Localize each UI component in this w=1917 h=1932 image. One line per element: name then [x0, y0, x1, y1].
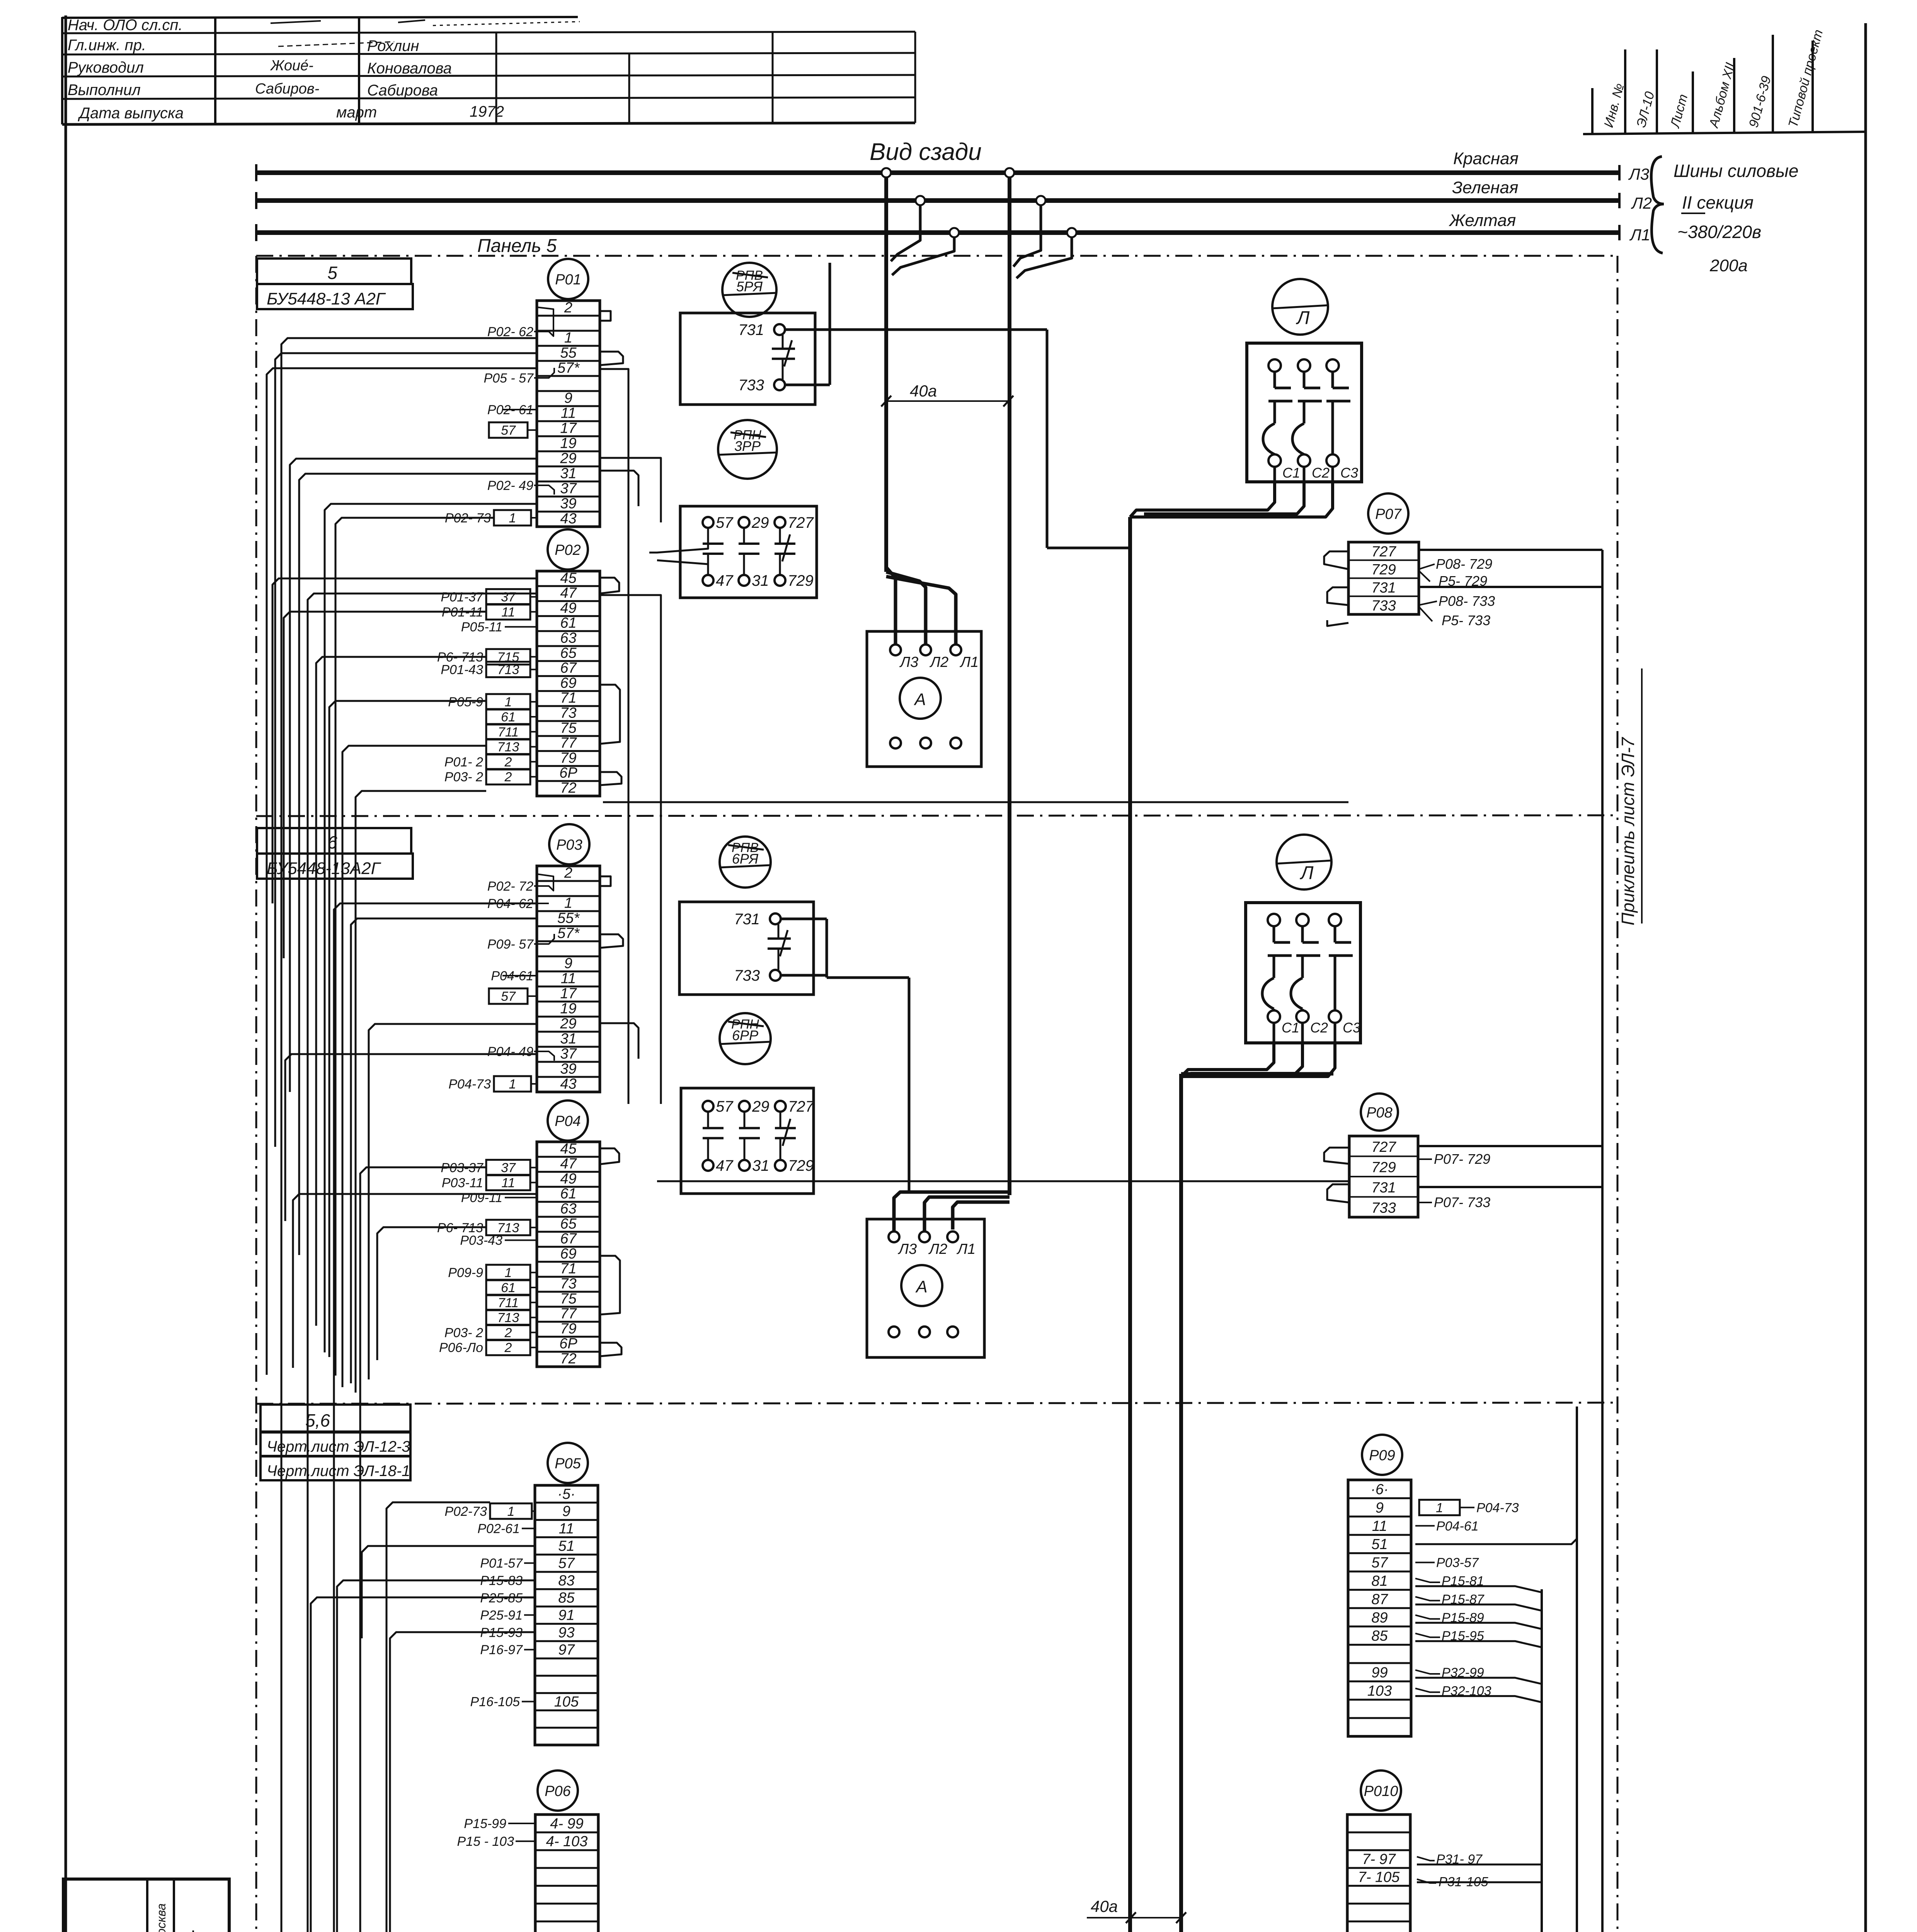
svg-text:Выполнил: Выполнил — [68, 82, 141, 99]
top-right stamp columns — [1583, 28, 1866, 134]
svg-text:Р07- 733: Р07- 733 — [1434, 1194, 1490, 1210]
svg-text:89: 89 — [1371, 1610, 1388, 1626]
svg-text:19: 19 — [560, 435, 576, 451]
svg-text:Р09- 57: Р09- 57 — [487, 937, 534, 952]
svg-text:19: 19 — [560, 1000, 576, 1017]
sheet left border — [65, 15, 67, 1932]
svg-text:731: 731 — [1371, 580, 1396, 596]
relay РПН 3РР — [718, 420, 777, 479]
svg-text:Рохлин: Рохлин — [367, 37, 419, 54]
svg-text:~380/220в: ~380/220в — [1677, 222, 1761, 242]
title table (sheet stamp) — [62, 17, 915, 124]
svg-text:9: 9 — [562, 1503, 570, 1520]
svg-text:Р07: Р07 — [1375, 506, 1402, 522]
svg-text:март: март — [336, 104, 377, 121]
svg-text:1: 1 — [507, 1504, 515, 1519]
svg-text:11: 11 — [559, 1521, 574, 1537]
svg-text:1: 1 — [505, 695, 512, 709]
contact block 731/733 panel6 — [679, 902, 814, 995]
svg-text:Р15-83: Р15-83 — [480, 1573, 523, 1588]
sheet right border — [1864, 23, 1867, 1932]
svg-text:43: 43 — [560, 510, 576, 527]
svg-text:713: 713 — [497, 740, 519, 755]
svg-text:Р03- 2: Р03- 2 — [444, 770, 483, 784]
Р010 right wire labels — [1417, 1852, 1542, 1889]
terminal strip Р05 — [535, 1443, 598, 1745]
left title block — [63, 1879, 229, 1932]
panel6 motor feeder — [781, 919, 1333, 1932]
svg-text:29: 29 — [560, 1015, 576, 1032]
panel6 header box 6 — [257, 828, 411, 854]
svg-text:9: 9 — [564, 955, 572, 971]
svg-text:105: 105 — [554, 1694, 579, 1710]
svg-text:87: 87 — [1371, 1591, 1388, 1607]
brace — [1651, 156, 1664, 253]
svg-text:67: 67 — [560, 1231, 577, 1247]
svg-text:31: 31 — [560, 465, 576, 481]
svg-text:Красная: Красная — [1453, 149, 1519, 168]
svg-text:2: 2 — [564, 865, 572, 881]
svg-text:99: 99 — [1371, 1665, 1388, 1681]
svg-text:Р09: Р09 — [1369, 1447, 1395, 1464]
Р07 wire labels — [1419, 556, 1495, 628]
svg-text:Вид сзади: Вид сзади — [870, 139, 982, 165]
power bus bars L3 L2 L1 — [256, 164, 1619, 241]
svg-text:91: 91 — [558, 1607, 574, 1624]
svg-text:29: 29 — [560, 450, 576, 466]
svg-text:11: 11 — [561, 405, 576, 421]
svg-text:Зеленая: Зеленая — [1452, 178, 1519, 197]
right vertical 4080 — [1576, 1406, 1578, 1553]
svg-text:Р03-37: Р03-37 — [441, 1161, 484, 1175]
right vertical 4146 — [1601, 550, 1604, 1932]
svg-text:Л3: Л3 — [1628, 165, 1649, 183]
svg-text:Р04: Р04 — [555, 1113, 581, 1129]
svg-text:69: 69 — [560, 675, 576, 691]
svg-text:1: 1 — [509, 1077, 516, 1092]
svg-text:83: 83 — [558, 1573, 574, 1589]
svg-text:Р09-11: Р09-11 — [461, 1190, 502, 1205]
svg-text:729: 729 — [1371, 1160, 1396, 1176]
strip right tabs — [600, 311, 661, 1356]
svg-text:Р05-9: Р05-9 — [448, 695, 483, 709]
svg-text:17: 17 — [560, 985, 577, 1002]
terminal block Р07 — [1348, 493, 1419, 614]
svg-text:63: 63 — [560, 1201, 576, 1217]
svg-text:77: 77 — [560, 735, 577, 751]
svg-text:37: 37 — [501, 1161, 516, 1175]
svg-text:57*: 57* — [557, 925, 580, 941]
svg-text:97: 97 — [558, 1642, 575, 1658]
svg-text:727: 727 — [1371, 1139, 1396, 1155]
svg-text:3РР: 3РР — [734, 438, 761, 454]
svg-text:С1: С1 — [1282, 465, 1300, 481]
svg-text:1: 1 — [564, 330, 572, 346]
svg-text:Р03: Р03 — [556, 837, 582, 853]
svg-text:Черт.лист ЭЛ-18-1: Черт.лист ЭЛ-18-1 — [267, 1463, 410, 1480]
svg-text:731: 731 — [734, 911, 760, 928]
svg-text:Р01-11: Р01-11 — [442, 605, 483, 619]
svg-text:Р03-57: Р03-57 — [1436, 1556, 1479, 1570]
svg-text:57: 57 — [716, 514, 734, 531]
svg-text:Р06-Ло: Р06-Ло — [439, 1340, 483, 1355]
svg-text:733: 733 — [1371, 598, 1396, 614]
svg-text:11: 11 — [1372, 1518, 1387, 1534]
section header 5,6 — [260, 1405, 410, 1432]
svg-text:Л3: Л3 — [899, 654, 918, 670]
svg-text:Р04-73: Р04-73 — [448, 1077, 491, 1092]
note II секция — [1681, 192, 1754, 213]
svg-text:Желтая: Желтая — [1449, 211, 1516, 230]
svg-text:Р01-43: Р01-43 — [441, 663, 483, 677]
svg-text:727: 727 — [788, 1098, 814, 1115]
ref box ЭЛ-12-3 — [260, 1432, 410, 1456]
svg-text:Р09-9: Р09-9 — [448, 1265, 483, 1280]
svg-text:29: 29 — [752, 1098, 770, 1115]
А panel6 feeder bundle — [894, 1192, 1010, 1231]
svg-text:67: 67 — [560, 660, 577, 676]
svg-text:Р08: Р08 — [1366, 1105, 1393, 1121]
svg-text:57: 57 — [716, 1098, 734, 1115]
svg-text:II секция: II секция — [1682, 192, 1754, 213]
svg-text:Р16-97: Р16-97 — [480, 1643, 523, 1657]
svg-text:75: 75 — [560, 720, 577, 736]
svg-text:Р02- 72: Р02- 72 — [487, 879, 533, 894]
svg-text:39: 39 — [560, 1061, 576, 1077]
svg-text:733: 733 — [1371, 1200, 1396, 1216]
svg-text:57: 57 — [558, 1555, 575, 1571]
svg-text:Р15-93: Р15-93 — [480, 1625, 523, 1640]
wire Р07 727 row — [1419, 549, 1602, 551]
svg-text:49: 49 — [560, 1171, 576, 1187]
svg-text:2: 2 — [564, 299, 572, 316]
svg-text:55*: 55* — [557, 910, 580, 926]
svg-text:г.Москва: г.Москва — [154, 1903, 168, 1932]
svg-text:65: 65 — [560, 645, 577, 661]
svg-text:7- 105: 7- 105 — [1358, 1869, 1400, 1885]
svg-text:·6·: ·6· — [1371, 1481, 1388, 1498]
svg-text:9: 9 — [1376, 1500, 1384, 1516]
terminal strip Р010 — [1347, 1770, 1410, 1932]
svg-text:Р01-57: Р01-57 — [480, 1556, 523, 1571]
svg-text:37: 37 — [501, 590, 516, 605]
svg-text:Л1: Л1 — [959, 654, 979, 670]
svg-text:2: 2 — [504, 1325, 512, 1340]
svg-text:73: 73 — [560, 1276, 576, 1292]
svg-text:29: 29 — [751, 514, 769, 531]
svg-text:Р15 - 103: Р15 - 103 — [457, 1834, 514, 1849]
Р02 left wire labels — [437, 589, 537, 785]
svg-text:69: 69 — [560, 1246, 576, 1262]
svg-text:79: 79 — [560, 750, 576, 766]
svg-text:43: 43 — [560, 1076, 576, 1092]
svg-text:57: 57 — [501, 423, 516, 438]
svg-text:5,6: 5,6 — [305, 1410, 330, 1430]
svg-text:Р07- 729: Р07- 729 — [1434, 1151, 1490, 1167]
terminal strip Р02 — [537, 529, 600, 796]
svg-text:77: 77 — [560, 1306, 577, 1322]
svg-text:731: 731 — [738, 321, 764, 338]
svg-text:61: 61 — [501, 1281, 516, 1295]
svg-text:731: 731 — [1371, 1180, 1396, 1196]
svg-text:С2: С2 — [1312, 465, 1330, 481]
contact block 57/29/727 panel5 — [680, 506, 817, 598]
block to strip wires panel5 — [649, 528, 708, 574]
terminal strip Р01 — [537, 259, 600, 527]
svg-text:31: 31 — [560, 1031, 576, 1047]
contactor panel6 output bundle — [1181, 1043, 1335, 1077]
svg-text:Р06: Р06 — [545, 1783, 571, 1799]
svg-text:729: 729 — [788, 572, 814, 589]
svg-text:61: 61 — [501, 710, 516, 724]
svg-text:51: 51 — [1371, 1536, 1388, 1553]
svg-text:6Р: 6Р — [559, 1336, 577, 1352]
svg-text:Л: Л — [1300, 863, 1314, 883]
svg-text:93: 93 — [558, 1624, 574, 1641]
svg-text:Р02- 62: Р02- 62 — [487, 325, 533, 339]
panel5 header box type — [257, 284, 413, 309]
left wire bundle to bottom devices — [267, 338, 848, 1932]
Р07 left jogs — [1324, 551, 1348, 626]
svg-text:Нач. ОЛО сл.сп.: Нач. ОЛО сл.сп. — [68, 17, 183, 34]
wire long 3057 — [657, 1180, 1349, 1182]
svg-text:Р05 - 57: Р05 - 57 — [484, 371, 534, 386]
svg-text:79: 79 — [560, 1321, 576, 1337]
terminal strip Р04 — [537, 1100, 600, 1367]
svg-text:17: 17 — [560, 420, 577, 436]
svg-text:85: 85 — [1371, 1628, 1388, 1644]
svg-text:Р02-73: Р02-73 — [444, 1504, 487, 1519]
contact block 57/29/727 panel6 — [681, 1088, 814, 1194]
svg-text:Сабиров-: Сабиров- — [255, 81, 319, 97]
svg-text:200а: 200а — [1709, 256, 1748, 275]
svg-text:Р01-37: Р01-37 — [441, 590, 484, 605]
svg-text:Р15-99: Р15-99 — [464, 1816, 506, 1831]
svg-text:Черт.лист ЭЛ-12-3: Черт.лист ЭЛ-12-3 — [267, 1438, 410, 1455]
panel6 header box type — [257, 854, 413, 879]
svg-text:45: 45 — [560, 1141, 577, 1157]
приклеить underline — [1641, 668, 1643, 923]
svg-text:713: 713 — [497, 663, 519, 677]
svg-text:Р02- 73: Р02- 73 — [445, 511, 491, 526]
svg-text:63: 63 — [560, 630, 576, 646]
svg-text:11: 11 — [561, 970, 576, 986]
svg-text:Гл.инж. пр.: Гл.инж. пр. — [68, 37, 146, 54]
svg-text:75: 75 — [560, 1291, 577, 1307]
svg-text:47: 47 — [716, 572, 734, 589]
svg-text:6РЯ: 6РЯ — [732, 851, 759, 867]
svg-text:Шины силовые: Шины силовые — [1674, 161, 1798, 181]
panel dash-dot boundary box and dividers — [256, 256, 1617, 1932]
svg-text:Р02-61: Р02-61 — [477, 1522, 520, 1536]
contactor panel5 output bundle — [1130, 482, 1333, 517]
svg-text:Р04- 62: Р04- 62 — [487, 896, 533, 911]
svg-text:65: 65 — [560, 1216, 577, 1232]
svg-text:85: 85 — [558, 1590, 575, 1606]
Р06 left wire labels — [457, 1816, 535, 1932]
svg-text:Р03-11: Р03-11 — [442, 1175, 483, 1190]
svg-text:71: 71 — [560, 690, 576, 706]
svg-text:Дата выпуска: Дата выпуска — [78, 105, 184, 122]
svg-text:55: 55 — [560, 345, 577, 361]
svg-text:С2: С2 — [1310, 1020, 1328, 1036]
svg-text:С1: С1 — [1282, 1020, 1299, 1036]
ammeter box А panel6 — [867, 1219, 984, 1357]
svg-text:Л2: Л2 — [1631, 194, 1652, 212]
svg-text:Р03- 2: Р03- 2 — [444, 1325, 483, 1340]
wire Р07 731 row — [1419, 586, 1602, 588]
svg-text:Р5- 733: Р5- 733 — [1442, 612, 1490, 628]
relay РПВ 6РЯ — [720, 837, 771, 888]
svg-text:Жоие́-: Жоие́- — [270, 58, 313, 74]
terminal strip Р06 — [535, 1770, 598, 1932]
svg-text:Руководил: Руководил — [68, 59, 144, 76]
svg-text:39: 39 — [560, 495, 576, 512]
svg-text:Р25-85: Р25-85 — [480, 1591, 523, 1605]
svg-text:47: 47 — [560, 1156, 577, 1172]
svg-text:733: 733 — [734, 967, 760, 984]
svg-text:Л2: Л2 — [929, 654, 948, 670]
svg-text:61: 61 — [560, 1186, 576, 1202]
svg-text:31: 31 — [752, 1157, 770, 1174]
svg-text:Р010: Р010 — [1364, 1783, 1398, 1799]
svg-text:11: 11 — [501, 605, 515, 619]
svg-text:Л1: Л1 — [1629, 226, 1650, 244]
svg-text:Р16-105: Р16-105 — [470, 1695, 520, 1709]
svg-text:Р08- 733: Р08- 733 — [1439, 593, 1495, 609]
svg-text:1: 1 — [564, 895, 572, 911]
svg-text:2: 2 — [504, 770, 512, 784]
svg-text:Р01: Р01 — [555, 272, 581, 288]
three-phase feeders from buses — [882, 168, 1076, 1195]
svg-text:713: 713 — [497, 1311, 519, 1325]
svg-text:37: 37 — [560, 1046, 577, 1062]
svg-text:Р25-91: Р25-91 — [480, 1608, 523, 1623]
panel5 motor feeder (40а circuit) — [785, 263, 1130, 1932]
svg-text:6РР: 6РР — [732, 1027, 758, 1043]
Р09 comb wires — [1415, 1586, 1542, 1702]
svg-text:727: 727 — [1371, 544, 1396, 560]
terminal strip Р09 — [1348, 1435, 1411, 1736]
svg-text:47: 47 — [560, 585, 577, 601]
svg-text:1: 1 — [505, 1265, 512, 1280]
svg-text:Р03-43: Р03-43 — [460, 1233, 502, 1248]
label 40а panel5 — [881, 382, 1013, 406]
svg-text:57: 57 — [1371, 1555, 1388, 1571]
svg-text:711: 711 — [498, 725, 519, 740]
long run 5189 — [337, 1589, 1542, 1932]
wire long 2076 — [603, 801, 1348, 803]
svg-text:А: А — [913, 690, 926, 709]
svg-text:Р05-11: Р05-11 — [461, 620, 502, 634]
svg-text:Сабирова: Сабирова — [367, 82, 438, 99]
svg-text:Р05: Р05 — [555, 1456, 581, 1472]
Р04 left wire labels — [437, 1160, 537, 1355]
contactor Л panel5 — [1247, 279, 1362, 482]
svg-text:1: 1 — [1436, 1500, 1443, 1515]
svg-text:Коновалова: Коновалова — [367, 60, 452, 77]
svg-text:45: 45 — [560, 570, 577, 586]
Р08 left jogs — [1324, 1148, 1349, 1202]
svg-text:Р02: Р02 — [555, 542, 581, 558]
relay РПН 6РР — [720, 1013, 771, 1064]
svg-text:49: 49 — [560, 600, 576, 616]
Р09 right wire labels — [1415, 1500, 1519, 1698]
svg-text:40а: 40а — [910, 382, 937, 400]
svg-text:47: 47 — [716, 1157, 734, 1174]
svg-text:Р02- 49: Р02- 49 — [487, 478, 533, 493]
svg-text:11: 11 — [501, 1175, 515, 1190]
svg-text:Л3: Л3 — [897, 1241, 917, 1257]
svg-text:72: 72 — [560, 780, 576, 796]
Р03 left wire labels — [448, 874, 554, 1092]
svg-text:А: А — [915, 1277, 927, 1296]
panel5 header box 5 — [257, 259, 411, 284]
svg-text:1972: 1972 — [470, 103, 504, 120]
svg-text:40а: 40а — [1091, 1897, 1118, 1915]
contact block 731/733 panel5 — [680, 313, 815, 405]
svg-text:51: 51 — [558, 1538, 574, 1554]
wire Р08 731 row — [1418, 1186, 1602, 1188]
terminal strip Р03 — [537, 824, 600, 1092]
contactor Л panel6 — [1246, 835, 1360, 1043]
label 40а bottom — [1087, 1897, 1186, 1923]
long run 5238 — [311, 1553, 1577, 1932]
svg-text:5: 5 — [327, 263, 337, 283]
svg-text:37: 37 — [560, 480, 577, 497]
Р09 row 51 wire — [1415, 1539, 1577, 1544]
svg-text:727: 727 — [788, 514, 814, 531]
ref box ЭЛ-18-1 — [260, 1456, 410, 1480]
svg-text:Р01- 2: Р01- 2 — [444, 755, 483, 769]
svg-text:2: 2 — [504, 1340, 512, 1355]
wire Р08 727 row — [1418, 1145, 1602, 1147]
svg-text:ТЯЖПРОМЭЛЕКТРОПРОЕКТ: ТЯЖПРОМЭЛЕКТРОПРОЕКТ — [189, 1930, 206, 1932]
svg-text:57: 57 — [501, 989, 516, 1004]
terminal block Р08 — [1349, 1094, 1418, 1217]
svg-text:1: 1 — [509, 511, 516, 526]
svg-text:БУ5448-13 А2Г: БУ5448-13 А2Г — [267, 289, 386, 308]
svg-text:Р08- 729: Р08- 729 — [1436, 556, 1492, 572]
svg-text:Л: Л — [1296, 308, 1310, 328]
svg-text:Панель 5: Панель 5 — [477, 236, 557, 256]
svg-text:7- 97: 7- 97 — [1362, 1851, 1396, 1867]
svg-text:Л2: Л2 — [928, 1241, 947, 1257]
svg-text:103: 103 — [1367, 1683, 1392, 1699]
Р05 left wire labels — [444, 1503, 535, 1709]
svg-text:733: 733 — [738, 377, 764, 394]
svg-text:4- 99: 4- 99 — [550, 1816, 584, 1832]
relay РПВ 5РЯ — [722, 263, 776, 317]
svg-text:Л1: Л1 — [956, 1241, 976, 1257]
svg-text:Р04- 49: Р04- 49 — [487, 1044, 533, 1059]
svg-text:72: 72 — [560, 1350, 576, 1367]
svg-text:73: 73 — [560, 705, 576, 721]
svg-text:711: 711 — [498, 1296, 519, 1310]
svg-text:31: 31 — [752, 572, 769, 589]
svg-text:71: 71 — [560, 1261, 576, 1277]
svg-text:6Р: 6Р — [559, 765, 577, 781]
svg-text:·5·: ·5· — [557, 1486, 575, 1502]
svg-text:4- 103: 4- 103 — [546, 1833, 588, 1850]
svg-text:Р04-73: Р04-73 — [1476, 1500, 1519, 1515]
ammeter box А panel5 — [867, 631, 981, 767]
svg-text:С3: С3 — [1343, 1020, 1360, 1036]
svg-text:Приклеить лист ЭЛ-7: Приклеить лист ЭЛ-7 — [1618, 737, 1638, 925]
svg-text:Р04-61: Р04-61 — [1436, 1519, 1479, 1534]
svg-text:729: 729 — [1371, 562, 1396, 578]
svg-text:С3: С3 — [1340, 465, 1358, 481]
